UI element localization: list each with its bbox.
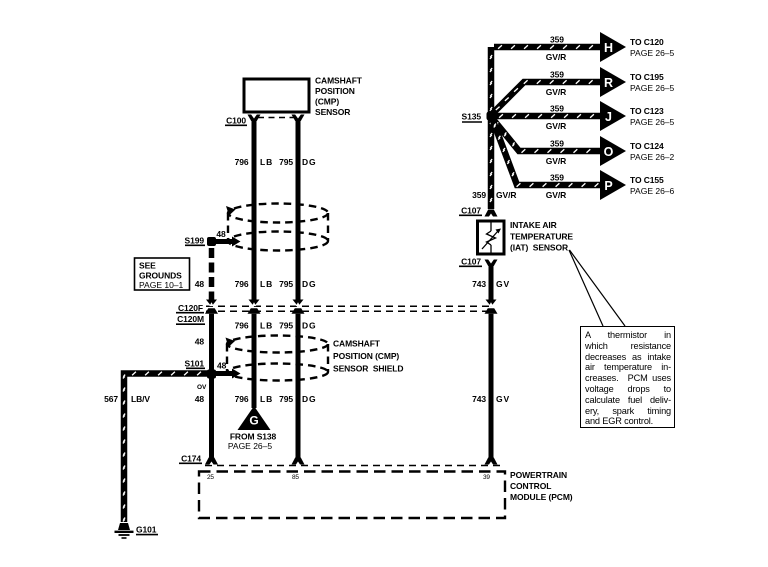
callout lines from IAT sensor to note box	[569, 250, 625, 326]
shield 2 lower attachment arrowhead	[232, 369, 241, 379]
stub wire S101 to shield 2	[214, 371, 233, 376]
svg-text:SEE: SEE	[139, 261, 156, 271]
wire labels row 3	[235, 321, 317, 331]
triangle G (from S138)	[238, 406, 271, 430]
label TO C123	[630, 106, 675, 127]
svg-text:48: 48	[216, 229, 226, 239]
svg-text:359: 359	[550, 35, 564, 45]
svg-text:359: 359	[472, 190, 486, 200]
label TO C155	[630, 175, 675, 196]
triangle connector R	[600, 67, 626, 97]
splice S135	[462, 112, 496, 123]
svg-text:GV/R: GV/R	[546, 121, 566, 131]
shield 2 text label	[333, 339, 403, 374]
wire labels row 2	[195, 279, 317, 289]
label 359 GV/R branch O	[546, 139, 566, 167]
svg-text:GV/R: GV/R	[546, 52, 566, 62]
label G101	[136, 525, 158, 535]
svg-text:25: 25	[207, 474, 214, 481]
svg-text:TO C195: TO C195	[630, 72, 664, 82]
wire branch H (hatched)	[494, 44, 600, 51]
wire branch P (hatched)	[492, 118, 600, 185]
connector C100 dashed interface line	[258, 117, 294, 119]
connector C120M label	[176, 314, 205, 324]
svg-text:PAGE 10–1: PAGE 10–1	[139, 280, 184, 290]
svg-text:SENSOR: SENSOR	[315, 107, 350, 117]
svg-text:796: 796	[235, 157, 249, 167]
svg-text:POSITION (CMP): POSITION (CMP)	[333, 351, 399, 361]
svg-text:O: O	[604, 145, 614, 159]
svg-text:GROUNDS: GROUNDS	[139, 271, 182, 281]
svg-text:POWERTRAIN: POWERTRAIN	[510, 470, 567, 480]
svg-text:PAGE 26–6: PAGE 26–6	[630, 186, 675, 196]
svg-text:LB: LB	[260, 157, 273, 167]
wire labels row 1	[235, 157, 317, 167]
svg-text:48: 48	[195, 394, 205, 404]
svg-text:S199: S199	[185, 235, 205, 245]
connector C174 label	[179, 453, 202, 463]
connector C107 foot (male)	[485, 210, 498, 217]
connector C107 upper label	[459, 205, 482, 215]
svg-text:LB/V: LB/V	[131, 394, 150, 404]
connector C120 junction on wire 795 DG	[292, 300, 305, 314]
svg-text:85: 85	[292, 474, 299, 481]
note: thermistor description box	[580, 326, 675, 428]
IAT sensor text label	[510, 220, 573, 253]
svg-text:C107: C107	[461, 256, 481, 266]
connector C100 pin (female cup) right	[292, 114, 305, 121]
shield 1 upper attachment blob	[226, 206, 236, 216]
wire 796 LB (CMP sensor to C120)	[252, 120, 257, 300]
shield symbol (upper): dashed barrel around wires	[228, 204, 328, 251]
wire 743 GV (C107 to C120)	[489, 264, 494, 300]
label TO C120	[630, 37, 675, 58]
svg-text:TO C124: TO C124	[630, 141, 664, 151]
connector C174 dashed interface line	[205, 465, 504, 467]
svg-text:C100: C100	[226, 115, 246, 125]
wire 359 GV/R vertical (hatched)	[488, 47, 495, 209]
svg-text:C174: C174	[181, 453, 201, 463]
svg-text:P: P	[604, 179, 612, 193]
svg-text:DG: DG	[302, 394, 317, 404]
connector C107 cup (female)	[485, 259, 498, 266]
svg-text:PAGE 26–2: PAGE 26–2	[630, 152, 675, 162]
svg-text:R: R	[604, 76, 613, 90]
svg-text:TO C123: TO C123	[630, 106, 664, 116]
wire branch R (hatched)	[492, 82, 600, 114]
svg-text:SENSOR SHIELD: SENSOR SHIELD	[333, 364, 403, 374]
svg-text:39: 39	[483, 474, 490, 481]
label FROM S138 PAGE 26-5	[228, 432, 277, 452]
svg-text:795: 795	[279, 394, 293, 404]
svg-text:PAGE 26–5: PAGE 26–5	[228, 441, 273, 451]
label 359 GV/R above C107	[472, 190, 516, 200]
svg-text:C120F: C120F	[178, 303, 203, 313]
svg-text:359: 359	[550, 70, 564, 80]
svg-text:CONTROL: CONTROL	[510, 481, 551, 491]
svg-text:796: 796	[235, 279, 249, 289]
connector C120 dashed interface lines	[206, 306, 492, 311]
svg-text:TO C155: TO C155	[630, 175, 664, 185]
svg-text:567: 567	[104, 394, 118, 404]
svg-text:CAMSHAFT: CAMSHAFT	[333, 339, 381, 349]
shield symbol (lower): CMP sensor shield dashed barrel	[227, 336, 328, 381]
triangle connector J	[600, 101, 626, 131]
svg-text:GV: GV	[496, 394, 510, 404]
wire 567 LB/V (hatched) S101 to G101	[124, 374, 208, 523]
shield 2 upper attachment blob	[226, 338, 236, 348]
PCM dashed box	[199, 472, 505, 519]
connector C100 pin (female cup) left	[248, 114, 261, 121]
svg-text:S101: S101	[185, 358, 205, 368]
splice S199	[185, 235, 216, 246]
svg-text:GV/R: GV/R	[546, 87, 566, 97]
label TO C124	[630, 141, 675, 162]
svg-text:TO C120: TO C120	[630, 37, 664, 47]
svg-text:INTAKE AIR: INTAKE AIR	[510, 220, 557, 230]
svg-text:PAGE 26–5: PAGE 26–5	[630, 48, 675, 58]
svg-text:MODULE (PCM): MODULE (PCM)	[510, 492, 573, 502]
triangle connector P	[600, 170, 626, 200]
connector C120 junction on wire drain 48	[205, 300, 218, 314]
svg-text:H: H	[604, 41, 613, 55]
connector C120 junction on wire 743 GV	[485, 300, 498, 314]
component: CAMSHAFT POSITION (CMP) SENSOR box	[244, 76, 363, 118]
label 743 GV upper	[472, 279, 510, 289]
connector C100 label	[225, 115, 247, 125]
svg-text:PAGE 26–5: PAGE 26–5	[630, 83, 675, 93]
svg-text:359: 359	[550, 139, 564, 149]
svg-text:OV: OV	[197, 384, 207, 391]
svg-text:(IAT) SENSOR: (IAT) SENSOR	[510, 243, 568, 253]
svg-text:C107: C107	[461, 205, 481, 215]
label 359 GV/R branch P	[546, 173, 566, 201]
label 359 GV/R branch R	[546, 70, 566, 98]
connector C120F label	[176, 303, 204, 313]
svg-text:DG: DG	[302, 157, 317, 167]
svg-text:G: G	[249, 414, 258, 428]
svg-text:359: 359	[550, 173, 564, 183]
svg-text:795: 795	[279, 321, 293, 331]
svg-text:743: 743	[472, 394, 486, 404]
label 359 GV/R branch H	[546, 35, 566, 63]
svg-text:359: 359	[550, 104, 564, 114]
connector C107 lower label	[459, 256, 482, 266]
splice S101	[185, 358, 216, 378]
svg-text:DG: DG	[302, 321, 317, 331]
svg-text:GV/R: GV/R	[546, 156, 566, 166]
component: INTAKE AIR TEMPERATURE (IAT) SENSOR box	[478, 221, 505, 254]
svg-text:796: 796	[235, 394, 249, 404]
shield 1 lower attachment arrowhead	[232, 237, 241, 247]
svg-text:J: J	[605, 110, 612, 124]
PCM pin numbers	[207, 474, 490, 481]
svg-text:DG: DG	[302, 279, 317, 289]
wire branch J (hatched)	[494, 113, 600, 120]
triangle connector H	[600, 32, 626, 62]
svg-text:48: 48	[195, 279, 205, 289]
ground G101 symbol	[115, 523, 134, 538]
svg-text:LB: LB	[260, 321, 273, 331]
svg-text:48: 48	[217, 361, 227, 371]
svg-text:LB: LB	[260, 279, 273, 289]
svg-text:GV/R: GV/R	[496, 190, 516, 200]
svg-text:(CMP): (CMP)	[315, 96, 339, 106]
svg-text:CAMSHAFT: CAMSHAFT	[315, 76, 363, 86]
svg-text:GV/R: GV/R	[546, 190, 566, 200]
svg-text:POSITION: POSITION	[315, 86, 355, 96]
label 359 GV/R branch J	[546, 104, 566, 132]
svg-text:PAGE 26–5: PAGE 26–5	[630, 117, 675, 127]
connector C174 foot on wire 743 GV pin 39	[485, 458, 498, 465]
wire labels row 4	[104, 394, 510, 404]
label TO C195	[630, 72, 675, 93]
note: SEE GROUNDS box	[135, 258, 190, 290]
stub wire S199 to shield	[214, 239, 233, 244]
svg-text:G101: G101	[136, 525, 157, 535]
connector C120 junction on wire 796 LB	[248, 300, 261, 314]
drain wire 48 (dashed) S199 to C120	[209, 248, 215, 300]
wire branch O (hatched)	[492, 118, 600, 151]
connector C174 foot on wire drain 48 pin 25	[205, 458, 218, 465]
connector C174 foot on wire 795 DG pin 85	[292, 458, 305, 465]
wire 795 DG (C120 to C174)	[296, 314, 301, 458]
svg-text:796: 796	[235, 321, 249, 331]
drain wire 48 (C120 through S101 to C174)	[209, 314, 214, 458]
svg-text:FROM S138: FROM S138	[230, 432, 277, 442]
svg-text:TEMPERATURE: TEMPERATURE	[510, 231, 573, 241]
svg-text:48: 48	[195, 337, 205, 347]
svg-text:GV: GV	[496, 279, 510, 289]
svg-text:743: 743	[472, 279, 486, 289]
svg-text:S135: S135	[462, 112, 482, 122]
label POWERTRAIN CONTROL MODULE (PCM)	[510, 470, 573, 502]
svg-text:LB: LB	[260, 394, 273, 404]
svg-text:795: 795	[279, 157, 293, 167]
wire 795 DG (CMP sensor to C120)	[296, 120, 301, 300]
wire 743 GV (C120 to C174)	[489, 314, 494, 458]
svg-text:C120M: C120M	[177, 314, 204, 324]
triangle connector O	[600, 136, 626, 166]
wire 796 LB (C120 to G triangle)	[252, 314, 257, 408]
svg-text:795: 795	[279, 279, 293, 289]
